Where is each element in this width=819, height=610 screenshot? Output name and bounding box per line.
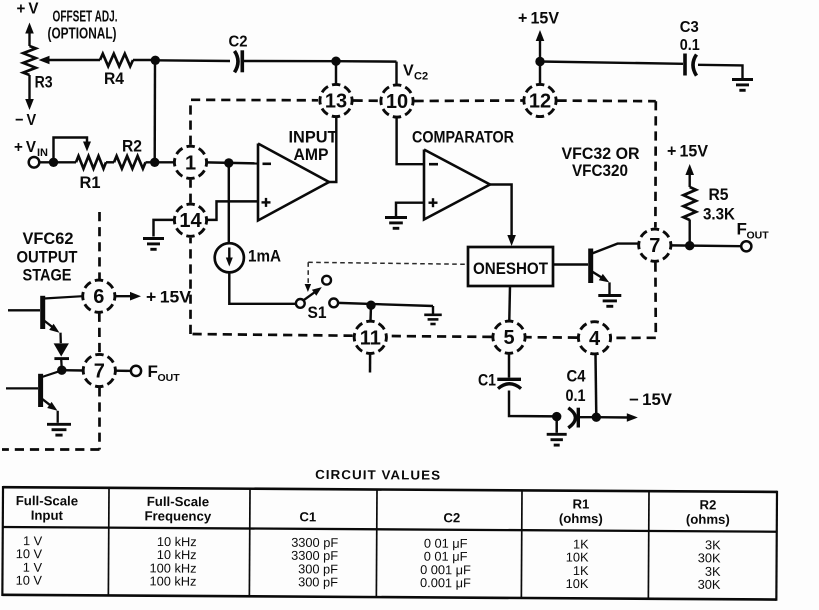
wire oneshot to Q1 base: [553, 263, 588, 265]
transistor Q1 emitter: [592, 272, 603, 279]
IC boundary top edge seg3: [415, 99, 523, 102]
svg-text:12: 12: [529, 91, 551, 113]
svg-text:10K: 10K: [566, 576, 589, 591]
wire -15V arrow: [596, 416, 629, 419]
svg-text:OUT: OUT: [747, 230, 770, 242]
comparator plus sign: [429, 201, 438, 203]
svg-text:− 15V: − 15V: [629, 391, 672, 409]
table bottom border: [2, 595, 776, 600]
pin 7: [634, 224, 676, 266]
svg-text:R4: R4: [104, 69, 124, 88]
svg-text:V: V: [403, 63, 414, 80]
transistor Q2 base wire: [8, 309, 40, 311]
pin 12: [519, 79, 561, 121]
transistor Q2 emitter: [44, 321, 53, 328]
wire R3 to -V arrow: [28, 75, 30, 102]
transistor Q1 base bar: [588, 249, 593, 284]
svg-text:100 kHz: 100 kHz: [149, 573, 196, 588]
ground right of S1: [424, 313, 442, 316]
wire +V arrow to R3: [28, 30, 30, 46]
transistor Q3 base wire: [6, 387, 38, 389]
IC boundary top edge seg1: [191, 98, 318, 101]
IC boundary right edge seg2: [654, 263, 657, 338]
svg-text:+ 15V: + 15V: [146, 288, 192, 307]
pin 13: [315, 79, 357, 121]
table header separator: [3, 527, 777, 532]
node op-amp input junction: [224, 158, 233, 167]
wire ground stub right of S1: [432, 306, 434, 314]
wire R1 to R2: [106, 161, 114, 163]
transistor Q3 base bar: [38, 374, 43, 407]
terminal Fout VFC62: [131, 366, 141, 376]
svg-text:+ 15V: + 15V: [518, 10, 559, 28]
node S1 output junction: [366, 301, 375, 310]
IC boundary bottom edge seg2: [527, 336, 578, 339]
wire pin14 to op-amp plus: [207, 201, 258, 220]
table column separator 2: [248, 489, 251, 597]
pin 14: [169, 199, 211, 241]
svg-text:14: 14: [179, 210, 202, 232]
svg-text:R5: R5: [709, 186, 729, 204]
svg-text:VFC62: VFC62: [23, 230, 74, 248]
transistor Q2 base bar: [40, 296, 45, 329]
VFC62 boundary bottom seg: [2, 448, 100, 451]
wire ground stub below C4 node: [555, 417, 558, 433]
wire pin 6 to +15V arrow: [115, 295, 133, 297]
svg-text:6: 6: [93, 286, 104, 308]
wire 1mA to switch S1: [229, 272, 295, 303]
wire node A to C2: [155, 59, 230, 62]
op-amp U1 plus sign: [262, 201, 271, 203]
svg-text:Full-Scale: Full-Scale: [147, 494, 209, 509]
svg-text:OFFSET ADJ.: OFFSET ADJ.: [53, 9, 118, 26]
svg-text:+ V: + V: [17, 1, 39, 18]
svg-text:10 V: 10 V: [16, 573, 43, 588]
svg-text:7: 7: [649, 235, 660, 257]
wire pin 10 to comparator minus: [397, 118, 424, 165]
wire R5 to Fout node: [689, 220, 691, 246]
svg-text:R3: R3: [35, 73, 53, 92]
resistor R4: [100, 54, 133, 67]
IC boundary left edge seg3: [189, 100, 192, 145]
svg-text:C4: C4: [567, 368, 587, 386]
svg-text:R1: R1: [80, 173, 101, 192]
wire R1 wiper: [54, 138, 88, 163]
potentiometer R1: [76, 156, 106, 169]
pin 7 VFC62: [78, 349, 120, 391]
wire +15V arrow to R5: [689, 172, 691, 187]
pin 10: [376, 80, 418, 122]
svg-text:1mA: 1mA: [248, 248, 281, 266]
wire node C to pin 12: [539, 62, 541, 85]
capacitor C2: [235, 51, 239, 72]
table right border: [775, 491, 778, 601]
ground at Q1: [598, 294, 621, 297]
svg-text:OUT: OUT: [158, 372, 181, 384]
wire pin 4 stub: [594, 355, 597, 417]
wire pin 5 to C1: [508, 353, 511, 377]
wire C2 to node B: [244, 60, 336, 63]
svg-text:10: 10: [386, 91, 408, 113]
svg-text:OUTPUT: OUTPUT: [17, 248, 78, 266]
wire node C to C3: [540, 62, 683, 64]
capacitor C1: [497, 378, 521, 381]
IC boundary top edge seg2: [354, 99, 380, 102]
node A junction: [151, 56, 160, 65]
ground at comparator: [385, 216, 407, 219]
wire node B to pin10 corner: [336, 60, 397, 63]
diode D1: [54, 343, 69, 356]
wire Q1 emitter to ground: [608, 282, 610, 294]
svg-text:Full-Scale: Full-Scale: [16, 493, 78, 508]
transistor Q1 collector: [592, 244, 639, 254]
op-amp U1 input amp: [258, 144, 329, 221]
resistor R5: [683, 187, 696, 220]
wire Vin to R1: [40, 161, 77, 163]
ground at C3: [732, 78, 753, 81]
svg-text:IN: IN: [37, 147, 48, 159]
table left border: [1, 486, 4, 596]
capacitor C4: [568, 408, 575, 428]
wire R4 to node A: [133, 59, 155, 61]
IC boundary bottom edge seg1: [612, 336, 656, 339]
svg-text:7: 7: [94, 361, 105, 383]
svg-text:COMPARATOR: COMPARATOR: [412, 127, 514, 146]
node D junction: [57, 366, 66, 375]
svg-text:− V: − V: [15, 112, 36, 129]
IC boundary top edge seg4: [558, 99, 656, 102]
wire comparator plus to ground: [396, 203, 424, 216]
one-shot U3 box: [468, 247, 553, 286]
svg-text:INPUT: INPUT: [289, 128, 339, 147]
ground at Q3: [47, 423, 71, 426]
svg-text:C2: C2: [229, 34, 248, 51]
wire diode to node D: [60, 359, 63, 370]
svg-text:Input: Input: [31, 508, 64, 523]
op-amp U1 minus sign: [263, 163, 272, 166]
wire op-amp output to pin 13: [329, 117, 336, 182]
wire node D to pin 7 VFC62: [62, 369, 83, 372]
switch S1 upper contact: [322, 276, 331, 285]
wire C3 to ground: [698, 65, 743, 78]
IC boundary left edge seg1: [189, 238, 192, 334]
node B junction: [331, 57, 340, 66]
svg-text:(ohms): (ohms): [559, 511, 603, 526]
svg-text:11: 11: [360, 327, 381, 349]
svg-text:S1: S1: [308, 303, 327, 322]
transistor Q3 collector: [42, 370, 62, 377]
svg-text:ONESHOT: ONESHOT: [473, 259, 549, 278]
wire pin 7 VFC62 to Fout terminal: [116, 370, 131, 373]
svg-text:(ohms): (ohms): [686, 512, 730, 527]
switch S1 left contact: [296, 299, 305, 308]
ground at C4: [547, 433, 567, 436]
wire R2 to pin 1: [146, 161, 174, 163]
VFC62 boundary top seg: [98, 212, 101, 279]
node Vin junction: [49, 158, 58, 167]
svg-text:+ 15V: + 15V: [667, 142, 709, 161]
wire C1 to ground node: [509, 391, 557, 417]
pin 11 bottom stub: [369, 354, 372, 373]
svg-text:13: 13: [325, 91, 347, 113]
terminal +Vin: [29, 157, 40, 168]
node C junction: [535, 57, 544, 66]
svg-text:C1: C1: [299, 509, 316, 524]
wire pin14 ground left: [154, 220, 175, 237]
IC boundary bottom edge seg3: [388, 335, 492, 339]
wire Q3 emitter to ground: [57, 411, 59, 423]
svg-text:C1: C1: [478, 372, 496, 390]
svg-text:4: 4: [589, 328, 601, 350]
svg-text:C2: C2: [414, 71, 428, 83]
table column separator 3: [375, 489, 378, 597]
table top border: [3, 487, 777, 492]
ground at pin 14: [143, 237, 164, 240]
switch S1 blade: [303, 290, 318, 301]
wire pin 7 to Fout node: [671, 244, 741, 247]
svg-text:(OPTIONAL): (OPTIONAL): [48, 26, 117, 43]
svg-text:3.3K: 3.3K: [703, 206, 735, 224]
IC boundary bottom edge seg4: [191, 334, 353, 336]
oneshot control dashed line: [308, 262, 468, 264]
potentiometer R3: [23, 46, 36, 75]
switch S1 right contact: [329, 299, 338, 308]
pin 11: [349, 316, 391, 358]
terminal Fout: [741, 241, 751, 251]
transistor Q3 emitter: [42, 399, 51, 406]
svg-text:C3: C3: [680, 19, 699, 36]
svg-text:R2: R2: [699, 497, 716, 512]
pin 1: [169, 141, 211, 183]
transistor Q2 collector: [44, 296, 83, 298]
wire C4 to pin 4 node: [580, 416, 596, 418]
wire Q2 emitter to diode: [59, 333, 62, 344]
svg-text:STAGE: STAGE: [23, 267, 72, 285]
VFC62 boundary low seg: [98, 387, 101, 449]
svg-text:Frequency: Frequency: [144, 508, 211, 523]
table column separator 1: [107, 488, 110, 596]
capacitor C3: [683, 54, 687, 76]
svg-text:AMP: AMP: [294, 145, 329, 164]
wire node A to node R2 vertical: [153, 60, 156, 162]
table column separator 4: [520, 490, 523, 598]
svg-text:+ V: + V: [14, 139, 36, 156]
node R2-C2 junction: [150, 158, 159, 167]
svg-text:5: 5: [503, 327, 514, 349]
svg-text:CIRCUIT VALUES: CIRCUIT VALUES: [315, 467, 441, 483]
pin 6 VFC62: [78, 275, 120, 317]
wire +15V arrow to node C: [539, 38, 541, 62]
svg-text:F: F: [737, 220, 747, 239]
svg-text:30K: 30K: [698, 577, 721, 592]
wire pin1 to op-amp: [207, 162, 259, 163]
wire junction to pin 11: [369, 305, 372, 321]
svg-text:0.1: 0.1: [566, 387, 586, 405]
wire R3 wiper to R4: [48, 59, 100, 61]
current source 1mA: [215, 243, 244, 272]
wire comparator output to oneshot: [490, 185, 512, 239]
svg-text:F: F: [148, 362, 158, 381]
svg-text:1: 1: [185, 152, 196, 174]
svg-text:C2: C2: [443, 510, 460, 525]
node pin 4 junction: [592, 413, 601, 422]
wire node B down to pin 13: [335, 61, 337, 84]
wire S1 to ground: [338, 303, 433, 306]
IC boundary left edge seg2: [189, 180, 192, 203]
svg-text:R2: R2: [122, 137, 142, 156]
IC boundary right edge seg1: [654, 101, 657, 227]
svg-text:0.001 μF: 0.001 μF: [420, 575, 471, 590]
table column separator 5: [647, 491, 650, 599]
svg-text:R1: R1: [572, 496, 589, 511]
pin 5: [488, 316, 530, 358]
node Fout junction: [685, 241, 694, 250]
comparator minus sign: [429, 163, 438, 166]
svg-text:300 pF: 300 pF: [298, 574, 338, 589]
resistor R2: [114, 156, 146, 169]
VFC62 boundary mid seg: [98, 313, 101, 354]
node C4 left junction: [552, 412, 561, 421]
wire oneshot to pin 5: [508, 286, 511, 320]
comparator U2: [424, 150, 490, 220]
svg-text:0.1: 0.1: [680, 37, 700, 54]
svg-text:VFC320: VFC320: [572, 161, 628, 180]
pin 4: [573, 317, 615, 359]
wire junction down to 1mA source: [228, 163, 230, 244]
